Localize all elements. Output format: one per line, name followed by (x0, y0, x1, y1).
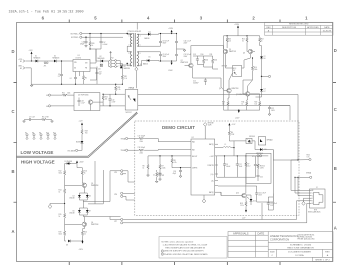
svg-text:R14: R14 (59, 190, 62, 192)
svg-text:+150V: +150V (234, 24, 240, 26)
wires demo lower (218, 186, 273, 202)
svg-text:C?o: C?o (307, 157, 310, 159)
svg-text:D3 1N4003: D3 1N4003 (65, 161, 73, 163)
svg-text:192A.sch-1 - Tue Feb 01 10:55:: 192A.sch-1 - Tue Feb 01 10:55:32 2000 (9, 10, 84, 15)
svg-text:A: A (334, 226, 337, 231)
svg-text:1k: 1k (84, 173, 86, 175)
resistor R6 (143, 156, 187, 177)
svg-text:C14: C14 (193, 81, 196, 83)
opto OPT2 (100, 87, 138, 115)
svg-text:R21: R21 (62, 92, 65, 94)
svg-text:D4: D4 (149, 31, 151, 33)
output rail to RG2 (268, 150, 298, 211)
resistor R1 (138, 135, 192, 143)
svg-text:B: B (11, 169, 14, 174)
resistor R12 (59, 168, 66, 179)
svg-text:470pF: 470pF (80, 44, 85, 46)
wire pair2 out (83, 217, 120, 220)
svg-text:SHEET 1 OF 2: SHEET 1 OF 2 (315, 260, 330, 262)
svg-text:+/-BIT: +/-BIT (210, 156, 214, 158)
svg-text:C2: C2 (264, 56, 266, 58)
svg-text:510k: 510k (59, 234, 63, 236)
resistor R19 (59, 224, 67, 241)
bottom rail (224, 52, 260, 111)
svg-text:D9: D9 (265, 149, 267, 151)
svg-text:510k: 510k (59, 173, 63, 175)
svg-text:C22: C22 (271, 108, 274, 110)
svg-text:2.2: 2.2 (58, 76, 60, 78)
wire opto lines right (270, 95, 299, 161)
svg-text:C18: C18 (81, 101, 84, 103)
svg-text:R7: R7 (247, 164, 249, 166)
connector E3 (71, 32, 133, 35)
svg-text:BGOUT: BGOUT (192, 156, 197, 158)
transistor Q6b (65, 217, 99, 229)
svg-text:C3: C3 (264, 89, 266, 91)
svg-text:INB: INB (192, 149, 195, 151)
capacitor C8 (139, 33, 169, 46)
resistor R18 (240, 198, 247, 210)
svg-text:C17 100pF: C17 100pF (138, 135, 146, 137)
svg-text:FB: FB (85, 68, 87, 70)
output cap C22 (268, 106, 276, 116)
resistor R20c right (81, 229, 87, 241)
svg-text:JP1: JP1 (44, 66, 47, 68)
svg-text:1k: 1k (84, 234, 86, 236)
svg-text:10-30-98: 10-30-98 (323, 30, 332, 32)
resistor R11 (210, 54, 218, 67)
svg-text:REV: REV (266, 27, 271, 29)
svg-text:C12: C12 (99, 72, 102, 74)
capacitor C25 (257, 174, 263, 181)
svg-text:C: C (334, 107, 337, 112)
svg-text:R15: R15 (242, 39, 245, 41)
svg-text:C21 22uF: C21 22uF (270, 203, 277, 205)
resistor R22b (255, 97, 261, 110)
jack J2 (308, 187, 325, 214)
plus mark (109, 51, 111, 53)
inductor L1 (218, 144, 234, 148)
svg-text:FMMT558: FMMT558 (229, 51, 236, 53)
svg-text:PLACED GROUND ON ACTUAL DEMO B: PLACED GROUND ON ACTUAL DEMO BOARD. (164, 253, 208, 256)
filter box F1 (98, 64, 103, 70)
resistor R5 (32, 117, 53, 123)
svg-text:10uF: 10uF (239, 166, 243, 168)
svg-text:REVISION RECORD: REVISION RECORD (289, 24, 309, 26)
svg-text:LINEAR TECHNOLOGY: LINEAR TECHNOLOGY (270, 234, 298, 238)
diode D5 (139, 31, 172, 40)
svg-text:SIZE: SIZE (270, 251, 275, 253)
svg-text:1.2k: 1.2k (124, 78, 127, 80)
svg-text:R20: R20 (84, 232, 87, 234)
svg-text:JP5: JP5 (114, 172, 117, 174)
revision record table (265, 22, 334, 35)
svg-text:0.01uF: 0.01uF (103, 44, 108, 46)
diode D9 (255, 148, 273, 155)
svg-text:Q9: Q9 (219, 88, 221, 90)
svg-text:R: R (312, 198, 313, 200)
svg-text:207: 207 (233, 70, 236, 72)
svg-text:NOTES: unless otherwise specif: NOTES: unless otherwise specified: (162, 240, 194, 243)
svg-text:1.2k: 1.2k (118, 89, 121, 91)
svg-text:E8: E8 (32, 132, 34, 134)
jumper JP3 (114, 192, 130, 200)
svg-text:R31: R31 (124, 76, 127, 78)
shield box (246, 153, 271, 183)
svg-text:Q5: Q5 (229, 49, 231, 51)
wire Q2 collector (191, 46, 224, 64)
svg-text:R12: R12 (59, 171, 62, 173)
+150V supply (168, 28, 174, 34)
zone numbers (42, 16, 309, 21)
svg-text:REV: REV (325, 251, 330, 253)
svg-text:R5 4.7M: R5 4.7M (42, 117, 49, 119)
svg-text:1k: 1k (59, 216, 61, 218)
svg-text:RING TONE GENERATOR: RING TONE GENERATOR (287, 247, 314, 250)
capacitor C4 (70, 74, 77, 84)
svg-text:CORPORATION: CORPORATION (270, 238, 289, 242)
diode D7 (256, 76, 266, 97)
capacitor C18b in box (78, 98, 85, 107)
svg-text:BZX84: BZX84 (76, 142, 81, 144)
svg-text:Q2: Q2 (181, 60, 183, 62)
svg-text:100k: 100k (214, 60, 218, 62)
svg-text:E10: E10 (46, 132, 49, 134)
capacitor C12 (172, 44, 191, 61)
wire U1 out (90, 49, 97, 80)
svg-text:D5: D5 (89, 196, 91, 198)
connector GRN (294, 172, 312, 179)
diode D6 (260, 46, 266, 77)
svg-text:C25: C25 (260, 177, 263, 179)
svg-text:1N4148: 1N4148 (69, 213, 74, 215)
+12V in (228, 123, 236, 127)
svg-text:C7 0.47: C7 0.47 (29, 117, 35, 119)
svg-text:HIGH VOLTAGE: HIGH VOLTAGE (21, 159, 55, 164)
svg-text:L1: L1 (225, 144, 227, 146)
diode pack D11 (258, 137, 272, 145)
svg-text:C1: C1 (153, 175, 155, 177)
connector E5 (46, 94, 62, 97)
wire to U1 (56, 60, 73, 62)
svg-text:1N4148: 1N4148 (69, 198, 74, 200)
svg-text:R4: R4 (231, 132, 233, 134)
svg-text:C9 4.7uF: C9 4.7uF (163, 54, 170, 56)
svg-text:VIN: VIN (74, 62, 77, 64)
transistor Q10 (221, 185, 249, 199)
ground (177, 49, 186, 52)
svg-text:FMMT558: FMMT558 (91, 224, 98, 226)
svg-text:C24: C24 (173, 171, 176, 173)
resistor R23 (81, 128, 88, 142)
svg-text:R11: R11 (210, 54, 213, 56)
resistor R7b (245, 155, 251, 177)
svg-text:JP5: JP5 (252, 156, 255, 158)
svg-text:100k: 100k (254, 69, 258, 71)
svg-text:JP12: JP12 (110, 57, 114, 59)
shield diamond (135, 67, 138, 71)
svg-text:D8: D8 (66, 244, 68, 246)
svg-text:3k: 3k (242, 41, 244, 43)
svg-text:250V: 250V (259, 195, 262, 197)
svg-text:E1: E1 (20, 61, 22, 63)
svg-text:C11 0.1uF: C11 0.1uF (184, 41, 191, 43)
mid node wire right (83, 200, 110, 202)
svg-text:FMMT458: FMMT458 (91, 185, 98, 187)
svg-text:R29 2k: R29 2k (260, 166, 265, 168)
connector E4 (71, 36, 123, 39)
svg-text:R22: R22 (255, 102, 258, 104)
svg-text:(.8)+: (.8)+ (211, 174, 214, 176)
diode D6 (139, 56, 172, 66)
diode D2 (53, 55, 60, 62)
transistor Q9 (229, 136, 255, 150)
svg-text:D5: D5 (149, 56, 151, 58)
jumper header JP12 (109, 52, 119, 67)
svg-text:Q6: Q6 (243, 53, 245, 55)
bias diodes D4 D5 pair1 (69, 193, 91, 200)
svg-text:47pF: 47pF (173, 173, 177, 175)
svg-text:2: 2 (162, 251, 163, 253)
diode D10 (76, 141, 83, 144)
svg-text:750: 750 (85, 133, 88, 135)
svg-text:LT1376: LT1376 (76, 57, 81, 59)
svg-text:DATE: DATE (258, 232, 265, 236)
svg-text:10k: 10k (105, 99, 108, 101)
svg-text:D7: D7 (89, 211, 91, 213)
connector E1 (18, 59, 30, 63)
svg-text:C3: C3 (58, 74, 60, 76)
title block (228, 232, 333, 262)
svg-text:C17: C17 (239, 164, 242, 166)
wire rails cluster (193, 56, 218, 69)
capacitor C1 (153, 172, 162, 181)
svg-text:DOCUMENT NUMBER: DOCUMENT NUMBER (288, 251, 311, 253)
svg-text:R18: R18 (240, 203, 243, 205)
svg-text:C4: C4 (70, 78, 72, 80)
test points E7-E11 (25, 132, 56, 139)
+150V supply (234, 24, 240, 36)
svg-text:3: 3 (162, 254, 163, 256)
svg-text:FMMT458: FMMT458 (181, 62, 188, 64)
svg-text:1/2W: 1/2W (260, 168, 264, 170)
svg-text:E9: E9 (39, 132, 41, 134)
svg-text:B: B (312, 201, 313, 203)
resistor R8 (171, 155, 186, 167)
svg-text:100uF: 100uF (226, 166, 230, 168)
capacitor C7 (23, 117, 35, 123)
wire opto outputs (138, 95, 298, 106)
capacitor C12b (96, 67, 102, 85)
jack wires (291, 160, 310, 223)
resistor R18b (59, 179, 66, 204)
node out (261, 75, 271, 77)
svg-text:DC192A: DC192A (295, 254, 304, 257)
svg-text:OPT1-B: OPT1-B (222, 66, 227, 68)
+12V rail (29, 50, 34, 62)
svg-text:E4: E4 (46, 106, 48, 108)
BGOUT rail (221, 155, 268, 157)
svg-text:C16: C16 (98, 69, 101, 71)
svg-text:1k: 1k (261, 41, 263, 43)
resistor R15 (242, 35, 248, 49)
diode D8b (66, 240, 83, 247)
svg-text:4.7uF: 4.7uF (112, 102, 116, 104)
transformer center tap (135, 71, 137, 88)
resistor R2 (82, 74, 87, 84)
svg-text:510: 510 (228, 41, 231, 43)
transformer left pin wires (127, 34, 130, 66)
diode D8 MBRS130 (119, 61, 130, 71)
svg-text:R16: R16 (254, 67, 257, 69)
svg-text:D6: D6 (73, 211, 75, 213)
svg-text:D4: D4 (73, 196, 75, 198)
svg-text:C8 4.7uF: C8 4.7uF (163, 41, 170, 43)
ground top right of U3 (203, 123, 213, 140)
svg-text:SCHEMATIC: LT1684: SCHEMATIC: LT1684 (290, 244, 312, 247)
capacitor C24 (173, 167, 182, 178)
resistor R30 from bus (115, 84, 121, 95)
svg-text:D6: D6 (264, 58, 266, 60)
capacitor C3 (58, 60, 63, 84)
svg-text:R6: R6 (143, 166, 145, 168)
svg-text:U2: U2 (192, 137, 194, 139)
svg-text:R13: R13 (228, 39, 231, 41)
svg-text:PHONE: (408) 432-1900: PHONE: (408) 432-1900 (298, 238, 315, 240)
svg-text:B: B (334, 166, 337, 171)
svg-text:APPROVALS: APPROVALS (233, 232, 249, 236)
voltage tap connector (67, 144, 82, 153)
svg-text:R8: R8 (174, 160, 176, 162)
svg-text:40.2: 40.2 (247, 166, 250, 168)
svg-text:R26: R26 (118, 87, 121, 89)
connector TRGA (120, 137, 138, 140)
connector TRGB (120, 149, 138, 152)
jumper JP2 (114, 170, 128, 177)
resistor R3 (138, 147, 192, 155)
transistor Q5b (65, 183, 99, 193)
IC U3 (186, 137, 221, 195)
diode D3b (65, 161, 78, 168)
transistor Q5 (223, 46, 236, 60)
capacitor C16 (80, 37, 88, 48)
svg-text:CTX02-14236-X2: CTX02-14236-X2 (127, 31, 141, 33)
svg-text:200k: 200k (140, 141, 144, 143)
resistor R17 (259, 36, 264, 46)
-150V supply (235, 109, 240, 119)
svg-text:BRIDGE: BRIDGE (208, 123, 214, 125)
svg-text:C17: C17 (103, 42, 106, 44)
svg-text:E7: E7 (25, 132, 27, 134)
svg-text:BK: BK (312, 190, 314, 192)
top rail (224, 36, 260, 46)
svg-text:R19: R19 (59, 232, 62, 234)
svg-text:R18: R18 (222, 102, 225, 104)
svg-text:R14: R14 (242, 102, 245, 104)
svg-text:1.21k: 1.21k (240, 205, 244, 207)
cap C15 (255, 190, 266, 199)
svg-text:MBRS140: MBRS140 (98, 58, 105, 60)
svg-text:E2: E2 (20, 68, 22, 70)
svg-text:DENOTE IDENTIFY SHOULD BE IDEN: DENOTE IDENTIFY SHOULD BE IDENTIFY. (164, 251, 204, 253)
svg-text:R12: R12 (261, 39, 264, 41)
resistor R4 (228, 127, 235, 142)
svg-text:A: A (11, 229, 14, 234)
divider line (17, 112, 138, 157)
svg-text:R7: R7 (162, 166, 164, 168)
diode D1 (30, 55, 40, 62)
svg-text:Q6: Q6 (91, 222, 93, 224)
svg-text:0.068uF: 0.068uF (193, 83, 199, 85)
ground diamond (48, 203, 65, 209)
resistor R16 (81, 168, 87, 184)
svg-text:JP6: JP6 (114, 194, 117, 196)
resistor R24 (100, 94, 108, 106)
svg-text:R24: R24 (105, 97, 108, 99)
note circled numbers (161, 250, 163, 256)
transistor Q9 (219, 73, 239, 98)
svg-text:C12 0.1uF: C12 0.1uF (184, 54, 191, 56)
capacitor C9 (139, 52, 169, 62)
svg-text:MOC: MOC (233, 68, 236, 70)
svg-text:R26: R26 (92, 43, 95, 45)
svg-text:DESCRIPTION: DESCRIPTION (282, 27, 297, 29)
svg-text:D7: D7 (264, 91, 266, 93)
cap bank C8b (223, 155, 230, 177)
+12V top (79, 121, 84, 128)
svg-text:APPROVED: APPROVED (307, 26, 319, 29)
svg-text:D2: D2 (54, 55, 56, 57)
svg-text:510k: 510k (67, 92, 71, 94)
zone letters (11, 48, 336, 234)
svg-text:DATE: DATE (324, 26, 330, 29)
diode D10 (246, 195, 256, 205)
wire stage to JP (88, 161, 121, 217)
capacitor C14 (193, 68, 224, 90)
connector RG2 (291, 154, 311, 160)
svg-text:C: C (11, 109, 14, 114)
wire from top frame (136, 23, 138, 30)
capacitor C13 (193, 54, 199, 65)
cap C21c (254, 156, 260, 177)
svg-text:0.1uF: 0.1uF (81, 103, 85, 105)
svg-text:FMMT558: FMMT558 (232, 88, 239, 90)
svg-text:1k: 1k (143, 168, 145, 170)
capacitor C17 (90, 33, 107, 49)
ground bus (30, 84, 122, 87)
resistor R13 (226, 35, 231, 48)
svg-text:1/2 TMPT2906: 1/2 TMPT2906 (78, 94, 89, 96)
svg-text:C19 100pF: C19 100pF (138, 147, 146, 149)
svg-text:LOW VOLTAGE: LOW VOLTAGE (21, 150, 54, 155)
svg-text:E3: E3 (46, 95, 48, 97)
svg-text:E11: E11 (53, 132, 56, 134)
resistor R26 (89, 33, 95, 49)
jumper JP4 (114, 218, 123, 224)
svg-text:Q10: Q10 (236, 193, 239, 195)
output rail down (234, 148, 273, 160)
svg-text:1k: 1k (92, 45, 94, 47)
svg-text:D8: D8 (124, 66, 126, 68)
svg-text:R28: R28 (85, 131, 88, 133)
opto OPT1-B (222, 58, 251, 76)
capacitor C10b (109, 94, 116, 106)
transistor Q2 (181, 60, 194, 68)
svg-text:1uF: 1uF (99, 74, 102, 76)
wires JP into demo (123, 177, 297, 223)
svg-text:NOTRBC-: NOTRBC- (71, 37, 79, 39)
pin dots (127, 33, 128, 34)
